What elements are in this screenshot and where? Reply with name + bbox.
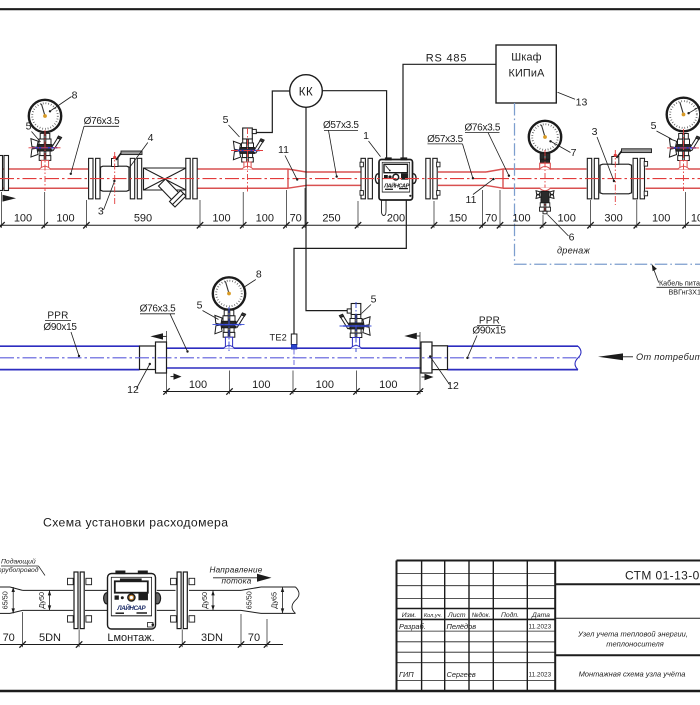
flange pair left of flow meter bbox=[361, 158, 365, 199]
svg-text:65/50: 65/50 bbox=[245, 591, 254, 609]
supply pipe Ø57 sections bbox=[306, 171, 361, 173]
svg-text:Подающий: Подающий bbox=[1, 558, 36, 566]
svg-text:70: 70 bbox=[485, 213, 497, 225]
svg-text:Ду50: Ду50 bbox=[37, 592, 46, 609]
return pipe PPR Ø90x15 right section with break bbox=[448, 345, 579, 347]
svg-text:5: 5 bbox=[371, 294, 377, 306]
flow arrow above right transition bbox=[417, 335, 420, 337]
svg-text:СТМ 01-13-06: СТМ 01-13-06 bbox=[625, 568, 700, 582]
return flow arrow bbox=[623, 356, 633, 358]
scheme flow meter bbox=[104, 593, 111, 604]
svg-text:70: 70 bbox=[3, 632, 15, 644]
svg-text:65/50: 65/50 bbox=[1, 591, 10, 609]
wire KK to valve 5 sensor bbox=[256, 91, 290, 133]
partial flange at left image edge bbox=[0, 156, 3, 191]
svg-text:Ø57x3.5: Ø57x3.5 bbox=[427, 134, 463, 145]
svg-text:Ø76x3.5: Ø76x3.5 bbox=[140, 304, 176, 315]
TE2 sensor bbox=[291, 334, 297, 345]
power cable line bbox=[515, 103, 700, 264]
svg-text:5: 5 bbox=[197, 300, 203, 312]
supply dimension ticks bbox=[0, 222, 5, 228]
flange pair right of strainer bbox=[186, 158, 190, 199]
flange pair left of valve 3 bbox=[89, 158, 93, 199]
svg-text:1: 1 bbox=[363, 130, 369, 142]
svg-text:Шкаф: Шкаф bbox=[511, 52, 542, 64]
svg-text:100: 100 bbox=[316, 379, 334, 391]
svg-text:100: 100 bbox=[652, 213, 670, 225]
svg-text:Ø90x15: Ø90x15 bbox=[472, 326, 506, 337]
svg-text:250: 250 bbox=[322, 213, 340, 225]
svg-text:5: 5 bbox=[651, 120, 657, 132]
scheme pipe right run bbox=[157, 589, 176, 591]
supply dimension extension lines bbox=[1, 192, 3, 228]
svg-text:13: 13 bbox=[576, 97, 588, 109]
svg-text:Узел учета тепловой энергии,: Узел учета тепловой энергии, bbox=[577, 629, 688, 638]
pressure gauge 8 (supply left) bbox=[29, 100, 61, 132]
svg-text:3: 3 bbox=[592, 126, 598, 138]
three-way valve 5 (supply right) bbox=[679, 134, 683, 140]
svg-text:Разраб.: Разраб. bbox=[399, 622, 426, 631]
svg-text:Схема установки расходомера: Схема установки расходомера bbox=[43, 516, 228, 530]
svg-text:100: 100 bbox=[512, 213, 530, 225]
TE2 blue centerline bbox=[293, 350, 295, 368]
svg-text:5: 5 bbox=[26, 121, 32, 133]
svg-text:8: 8 bbox=[256, 269, 262, 281]
svg-text:теплоносителя: теплоносителя bbox=[606, 640, 664, 649]
red centerline of valve 3 bbox=[114, 152, 116, 205]
svg-text:7: 7 bbox=[571, 147, 577, 159]
svg-text:200: 200 bbox=[387, 213, 405, 225]
svg-text:150: 150 bbox=[449, 213, 467, 225]
svg-text:12: 12 bbox=[447, 380, 459, 392]
svg-text:100: 100 bbox=[379, 379, 397, 391]
cable label with leader arrow bbox=[652, 265, 659, 283]
svg-text:Пелёдов: Пелёдов bbox=[447, 622, 477, 631]
svg-text:100: 100 bbox=[256, 213, 274, 225]
red centerline gauge 7 to drain bbox=[544, 150, 546, 212]
blue centerline return gauge valve bbox=[228, 307, 230, 352]
supply pipe centerline bbox=[0, 178, 700, 180]
svg-text:Сергеев: Сергеев bbox=[447, 670, 476, 679]
drain valve 6 bbox=[539, 188, 551, 191]
flange pair right of flow meter bbox=[426, 158, 430, 199]
return dimension line bbox=[163, 391, 423, 393]
svg-text:70: 70 bbox=[248, 632, 260, 644]
svg-text:100: 100 bbox=[189, 379, 207, 391]
svg-text:Подп.: Подп. bbox=[501, 611, 519, 619]
scheme dimension ticks bbox=[19, 641, 25, 647]
three-way valve 5 with sensor head (return right) bbox=[351, 304, 361, 315]
flow meter side bosses bbox=[375, 174, 380, 184]
gauge 7 stem bbox=[540, 153, 544, 159]
svg-text:От потребителя: От потребителя bbox=[636, 352, 700, 362]
flange pair right of valve 3 bbox=[130, 158, 134, 199]
return pipe Ø76x3.5 middle section bbox=[167, 347, 422, 349]
svg-text:№док.: №док. bbox=[472, 611, 491, 619]
three-way valve 5 (return left) bbox=[224, 310, 228, 316]
scheme flange right bbox=[177, 572, 181, 629]
return dimension ticks bbox=[163, 388, 169, 394]
transition 12 left bbox=[140, 346, 156, 370]
svg-text:ТЕ2: ТЕ2 bbox=[270, 332, 287, 342]
scheme dimension line bbox=[0, 644, 283, 646]
svg-text:Ø57x3.5: Ø57x3.5 bbox=[323, 120, 359, 131]
svg-text:RS 485: RS 485 bbox=[426, 53, 468, 65]
wire flow meter to TE2 sensor bbox=[294, 201, 406, 334]
svg-text:100: 100 bbox=[252, 379, 270, 391]
svg-text:Lмонтаж.: Lмонтаж. bbox=[107, 632, 154, 644]
svg-text:100: 100 bbox=[56, 213, 74, 225]
svg-text:КИПиА: КИПиА bbox=[508, 68, 545, 80]
supply dimension line bbox=[0, 224, 700, 226]
flange pair right of valve 3 right bbox=[633, 158, 637, 199]
flow arrow below right transition bbox=[422, 376, 425, 378]
reducer 11 left (Ø76→Ø57) bbox=[288, 169, 306, 172]
svg-text:4: 4 bbox=[148, 132, 154, 144]
wire KK down to return valve sensor bbox=[306, 107, 349, 310]
drawing frame bottom border bbox=[0, 690, 700, 692]
leader dot on right gauge bbox=[687, 112, 689, 114]
svg-text:100: 100 bbox=[14, 213, 32, 225]
svg-text:Ø76x3.5: Ø76x3.5 bbox=[84, 116, 120, 127]
svg-text:3: 3 bbox=[98, 206, 104, 218]
svg-text:Лист: Лист bbox=[447, 612, 466, 619]
svg-text:70: 70 bbox=[290, 213, 302, 225]
wire KK to flow meter bbox=[322, 91, 386, 158]
svg-text:100: 100 bbox=[558, 213, 576, 225]
svg-text:6: 6 bbox=[569, 232, 575, 244]
svg-text:трубопровод: трубопровод bbox=[0, 566, 39, 574]
svg-text:Изм.: Изм. bbox=[402, 612, 417, 619]
svg-text:11: 11 bbox=[466, 194, 477, 206]
svg-text:ВВГнг3Х1,5: ВВГнг3Х1,5 bbox=[669, 288, 700, 297]
svg-text:590: 590 bbox=[134, 213, 152, 225]
three-way valve 5 with sensor head (supply middle) bbox=[243, 128, 253, 139]
svg-text:Монтажная схема узла учёта: Монтажная схема узла учёта bbox=[579, 669, 686, 678]
Y-strainer 4 bbox=[144, 168, 187, 190]
supply flow direction arrow bbox=[3, 195, 17, 202]
ball valve 3 (supply left) bbox=[101, 166, 130, 191]
svg-text:3DN: 3DN bbox=[201, 632, 223, 644]
svg-text:Кол.уч.: Кол.уч. bbox=[424, 613, 442, 619]
pressure gauge 8 (return) bbox=[213, 277, 245, 309]
cabinet Shkaf KIPiA box bbox=[496, 45, 556, 103]
svg-text:дренаж: дренаж bbox=[557, 246, 590, 256]
svg-text:5: 5 bbox=[223, 114, 229, 126]
flow meter 1 body bbox=[379, 160, 413, 201]
svg-text:ЛАЙНСАР: ЛАЙНСАР bbox=[116, 604, 146, 612]
drawing frame top border bbox=[0, 8, 700, 10]
red centerline right valve bbox=[683, 129, 685, 191]
pressure gauge (supply right) bbox=[667, 98, 700, 132]
scheme dimension extension lines bbox=[22, 612, 24, 647]
svg-text:12: 12 bbox=[127, 384, 139, 396]
svg-text:PPR: PPR bbox=[47, 311, 68, 322]
svg-text:11.2023: 11.2023 bbox=[529, 624, 552, 631]
supply pipe Ø76 left sections bbox=[0, 168, 88, 170]
red centerline of valve 5 stem bbox=[44, 130, 46, 191]
svg-text:Кабель питания: Кабель питания bbox=[659, 278, 700, 287]
red centerline valve 5 middle bbox=[247, 128, 249, 192]
svg-text:100: 100 bbox=[691, 213, 700, 225]
svg-text:8: 8 bbox=[72, 90, 78, 102]
wire RS485 flow meter to cabinet bbox=[403, 64, 496, 158]
svg-text:5DN: 5DN bbox=[39, 632, 61, 644]
pressure gauge 7 bbox=[529, 121, 561, 153]
scheme flange left bbox=[74, 572, 78, 629]
svg-text:11.2023: 11.2023 bbox=[529, 672, 552, 679]
return pipe centerline bbox=[0, 357, 580, 359]
svg-text:ГИП: ГИП bbox=[399, 670, 414, 679]
svg-text:Дата: Дата bbox=[531, 612, 550, 619]
KK device circle bbox=[290, 75, 323, 108]
blue centerline return right valve bbox=[355, 302, 357, 352]
svg-text:Направление: Направление bbox=[210, 566, 263, 575]
svg-text:Ду65: Ду65 bbox=[270, 592, 279, 609]
label 13 leader bbox=[558, 92, 576, 99]
return pipe PPR Ø90x15 left section bbox=[0, 345, 140, 347]
three-way valve 5 under gauge 8 bbox=[40, 133, 44, 139]
ball valve 3 (supply right) bbox=[600, 164, 632, 194]
red centerline valve 3 right bbox=[614, 150, 616, 205]
svg-text:Ø76x3.5: Ø76x3.5 bbox=[464, 122, 500, 133]
flow arrow below left transition bbox=[171, 376, 174, 378]
svg-text:Ду50: Ду50 bbox=[200, 592, 209, 609]
scheme pipe left run bbox=[0, 586, 10, 588]
svg-text:300: 300 bbox=[604, 213, 622, 225]
flow arrow above left transition bbox=[163, 335, 167, 337]
flow meter seal wire bbox=[382, 201, 387, 216]
svg-text:Ø90x15: Ø90x15 bbox=[43, 322, 77, 333]
return dimension extension lines bbox=[166, 331, 168, 394]
reducer 11 right (Ø57→Ø76) bbox=[486, 169, 503, 172]
flange pair left of valve 3 right bbox=[587, 158, 591, 199]
transition 12 right bbox=[421, 342, 432, 373]
svg-text:100: 100 bbox=[212, 213, 230, 225]
svg-text:11: 11 bbox=[278, 144, 289, 156]
supply pipe Ø76 right sections bbox=[503, 168, 587, 170]
svg-text:КК: КК bbox=[299, 87, 313, 99]
title block grid bbox=[397, 560, 700, 562]
